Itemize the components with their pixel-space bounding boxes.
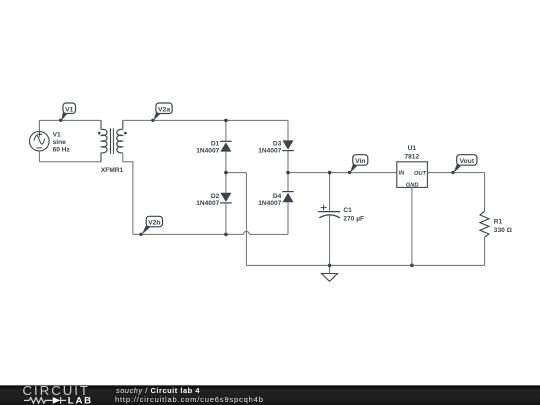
wire [484, 237, 486, 265]
wire [484, 173, 486, 212]
wire [245, 173, 247, 266]
svg-text:R1: R1 [494, 218, 503, 225]
svg-text:1N4007: 1N4007 [258, 147, 281, 154]
diode D4 [282, 192, 294, 203]
node flag Vin [348, 155, 368, 175]
wire [225, 120, 227, 141]
svg-text:7812: 7812 [404, 153, 419, 160]
wire [287, 120, 289, 140]
footer title [116, 386, 200, 395]
svg-text:Vin: Vin [355, 158, 365, 165]
wire [288, 172, 397, 174]
wire [123, 153, 133, 235]
svg-text:330 Ω: 330 Ω [494, 227, 513, 234]
svg-text:1N4007: 1N4007 [196, 200, 219, 207]
wire [329, 265, 331, 273]
voltage source V1 [30, 131, 50, 151]
svg-text:U1: U1 [408, 145, 417, 152]
wire [133, 233, 244, 235]
wire [287, 202, 289, 234]
diode D1 [220, 141, 232, 151]
svg-text:V2a: V2a [158, 106, 170, 113]
wire [329, 215, 331, 265]
ground [322, 274, 338, 282]
junction V2b / D2 [224, 233, 228, 237]
wire [38, 120, 40, 131]
diode D3 [282, 140, 294, 150]
node flag V2a [151, 103, 172, 122]
wire [249, 233, 288, 235]
label D4 value [258, 193, 281, 207]
wire [38, 151, 40, 162]
wire [246, 264, 484, 266]
footer url [115, 395, 264, 404]
node flag V1 [59, 103, 76, 122]
svg-text:V1: V1 [53, 131, 61, 138]
wire [123, 119, 288, 121]
node flag V2b [139, 216, 162, 236]
svg-text:V1: V1 [65, 106, 74, 113]
label R1 value [494, 218, 513, 234]
svg-text:XFMR1: XFMR1 [101, 167, 124, 174]
wire [329, 173, 331, 212]
wire [225, 152, 227, 193]
wire [225, 203, 227, 235]
wire [411, 187, 413, 265]
label D1 value [196, 140, 219, 154]
capacitor C1 [318, 205, 340, 218]
junction at top rail / D1 [224, 119, 228, 123]
wire [39, 119, 101, 121]
svg-text:60 Hz: 60 Hz [53, 146, 71, 153]
label C1 value [343, 207, 364, 223]
resistor R1 [480, 211, 489, 237]
wire [39, 161, 101, 163]
svg-text:C1: C1 [343, 207, 352, 214]
node flag Vout [451, 155, 477, 175]
diode D2 [220, 193, 232, 203]
junction D1-D2 midpoint [224, 171, 228, 175]
label V1 value [53, 131, 71, 153]
label D2 value [196, 193, 219, 207]
svg-text:Vout: Vout [459, 158, 474, 165]
junction C1 top [328, 171, 332, 175]
svg-text:1N4007: 1N4007 [258, 200, 281, 207]
junction D3-D4 midpoint [286, 171, 290, 175]
svg-text:OUT: OUT [414, 171, 427, 177]
svg-text:1N4007: 1N4007 [196, 147, 219, 154]
wire [427, 172, 484, 174]
svg-text:V2b: V2b [148, 220, 160, 227]
svg-text:IN: IN [399, 170, 406, 176]
junction GND stub / bottom rail [410, 264, 414, 268]
svg-text:270 µF: 270 µF [343, 215, 364, 222]
junction C1 bottom / ground [328, 264, 332, 268]
svg-text:LAB: LAB [68, 396, 93, 405]
voltage regulator U1 [397, 162, 428, 189]
wire [287, 151, 289, 192]
svg-text:sine: sine [53, 139, 67, 146]
label U1 value [404, 145, 419, 160]
wire [226, 172, 247, 174]
label D3 value [258, 140, 281, 154]
CircuitLab logo [0, 384, 100, 405]
footer bar [0, 385, 540, 405]
transformer XFMR1 [98, 120, 127, 161]
wire hop [243, 231, 249, 234]
